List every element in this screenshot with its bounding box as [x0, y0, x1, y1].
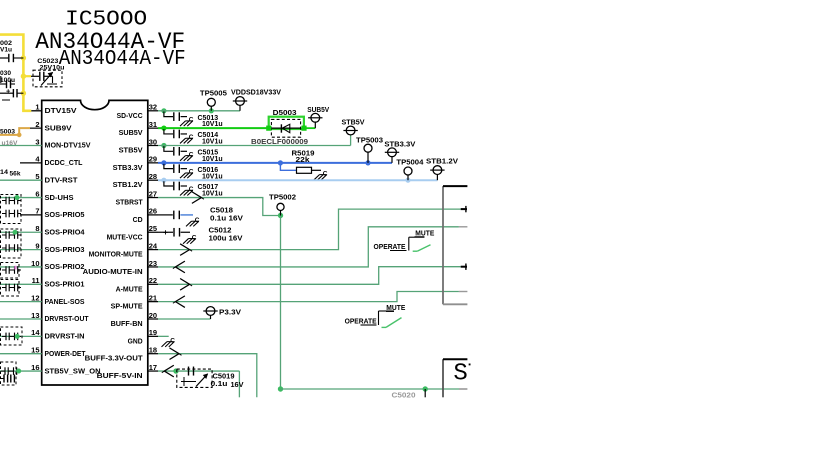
svg-text:TP5004: TP5004 — [396, 160, 423, 167]
svg-text:SOS-PRIO5: SOS-PRIO5 — [45, 212, 85, 219]
svg-text:30: 30 — [149, 137, 157, 146]
svg-text:STBRST: STBRST — [116, 200, 144, 207]
svg-text:24: 24 — [149, 241, 158, 250]
svg-text:DTV15V: DTV15V — [45, 108, 77, 115]
svg-text:12: 12 — [31, 293, 39, 302]
svg-text:STB5V: STB5V — [342, 120, 365, 127]
svg-text:+: + — [163, 227, 168, 237]
svg-text:16V: 16V — [231, 382, 244, 389]
svg-text:56k: 56k — [10, 170, 21, 177]
svg-text:AN34O44A-VF: AN34O44A-VF — [59, 48, 186, 71]
svg-text:GND: GND — [128, 338, 143, 345]
svg-text:SOS-PRIO1: SOS-PRIO1 — [45, 282, 85, 289]
svg-text:28: 28 — [149, 172, 157, 181]
svg-text:SP-MUTE: SP-MUTE — [111, 304, 143, 311]
svg-text:25: 25 — [149, 224, 157, 233]
svg-text:7: 7 — [35, 207, 39, 216]
svg-text:STB1.2V: STB1.2V — [426, 158, 458, 165]
svg-text:20: 20 — [149, 311, 157, 320]
svg-text:C5012: C5012 — [209, 228, 232, 235]
svg-text:SOS-PRIO3: SOS-PRIO3 — [45, 247, 85, 254]
svg-text:STB1.2V: STB1.2V — [113, 182, 143, 189]
svg-text:VDDSD18V33V: VDDSD18V33V — [231, 90, 281, 97]
svg-text:C5018: C5018 — [210, 207, 233, 214]
svg-text:DCDC_CTL: DCDC_CTL — [45, 160, 84, 167]
svg-text:MON-DTV15V: MON-DTV15V — [45, 143, 91, 150]
svg-text:TP5002: TP5002 — [269, 195, 296, 202]
svg-text:29: 29 — [149, 155, 157, 164]
svg-text:V1u: V1u — [0, 46, 12, 53]
svg-text:5: 5 — [35, 172, 39, 181]
svg-text:TP5003: TP5003 — [356, 137, 383, 144]
svg-text:3: 3 — [35, 137, 39, 146]
svg-text:16: 16 — [31, 363, 39, 372]
svg-text:19: 19 — [149, 328, 157, 337]
svg-text:22k: 22k — [296, 157, 310, 164]
svg-text:IC5OOO: IC5OOO — [65, 9, 147, 32]
svg-text:14: 14 — [0, 169, 8, 176]
svg-text:31: 31 — [149, 120, 157, 129]
svg-text:14: 14 — [31, 328, 40, 337]
svg-text:A-MUTE: A-MUTE — [116, 286, 143, 293]
svg-text:100u: 100u — [0, 77, 15, 84]
svg-text:DTV-RST: DTV-RST — [45, 177, 79, 184]
svg-text:10V1u: 10V1u — [202, 191, 223, 198]
svg-text:DRVRST-IN: DRVRST-IN — [45, 334, 85, 341]
svg-text:32: 32 — [149, 103, 157, 112]
svg-text:6: 6 — [35, 189, 39, 198]
svg-text:9: 9 — [35, 241, 39, 250]
svg-text:26: 26 — [149, 207, 157, 216]
svg-text:C5019: C5019 — [213, 374, 235, 381]
svg-text:21: 21 — [149, 293, 157, 302]
svg-text:B0ECLF000009: B0ECLF000009 — [251, 139, 308, 146]
svg-text:10V1u: 10V1u — [202, 156, 223, 163]
svg-text:22: 22 — [149, 276, 157, 285]
svg-text:BUFF-5V-IN: BUFF-5V-IN — [97, 373, 143, 380]
svg-text:P3.3V: P3.3V — [219, 309, 241, 316]
svg-text:BUFF-3.3V-OUT: BUFF-3.3V-OUT — [85, 356, 144, 363]
svg-text:STB5V: STB5V — [119, 148, 143, 155]
svg-text:C5020: C5020 — [392, 393, 416, 400]
svg-text:17: 17 — [149, 363, 157, 372]
svg-text:MUTE-VCC: MUTE-VCC — [107, 234, 143, 241]
svg-text:SUB5V: SUB5V — [119, 130, 143, 137]
svg-text:27: 27 — [149, 189, 157, 198]
svg-text:SOS-PRIO2: SOS-PRIO2 — [45, 264, 85, 271]
svg-text:TP5005: TP5005 — [200, 91, 227, 98]
svg-text:D5003: D5003 — [273, 110, 297, 117]
svg-text:15: 15 — [31, 346, 39, 355]
svg-text:+: + — [6, 86, 11, 95]
svg-text:STB3.3V: STB3.3V — [384, 142, 415, 149]
svg-text:CD: CD — [133, 217, 143, 224]
svg-text:23: 23 — [149, 259, 157, 268]
svg-text:POWER-DET: POWER-DET — [45, 351, 87, 358]
svg-text:SUB9V: SUB9V — [45, 125, 72, 132]
svg-text:u16V: u16V — [2, 140, 19, 147]
svg-text:8: 8 — [35, 224, 39, 233]
svg-text:5003: 5003 — [0, 128, 15, 135]
svg-text:13: 13 — [31, 311, 39, 320]
svg-text:SUB5V: SUB5V — [307, 107, 329, 114]
svg-text:0.1u: 0.1u — [211, 381, 228, 388]
svg-text:100u 16V: 100u 16V — [209, 236, 243, 243]
svg-text:PANEL-SOS: PANEL-SOS — [45, 299, 85, 306]
svg-text:STB3.3V: STB3.3V — [113, 165, 143, 172]
svg-text:10: 10 — [31, 259, 39, 268]
svg-text:10V1u: 10V1u — [202, 139, 223, 146]
svg-text:0.1u 16V: 0.1u 16V — [210, 216, 243, 223]
svg-text:DRVRST-OUT: DRVRST-OUT — [45, 316, 90, 323]
svg-text:030: 030 — [0, 70, 11, 77]
svg-text:MONITOR-MUTE: MONITOR-MUTE — [89, 252, 143, 259]
svg-text:18: 18 — [149, 346, 157, 355]
svg-text:SOS-PRIO4: SOS-PRIO4 — [45, 229, 85, 236]
svg-text:BUFF-BN: BUFF-BN — [111, 321, 143, 328]
svg-text:11: 11 — [32, 276, 40, 285]
svg-text:SD-VCC: SD-VCC — [117, 113, 143, 120]
svg-text:SD-UHS: SD-UHS — [45, 195, 74, 202]
svg-text:STB5V_SW_ON: STB5V_SW_ON — [45, 368, 101, 375]
svg-text:AUDIO-MUTE-IN: AUDIO-MUTE-IN — [83, 269, 143, 276]
